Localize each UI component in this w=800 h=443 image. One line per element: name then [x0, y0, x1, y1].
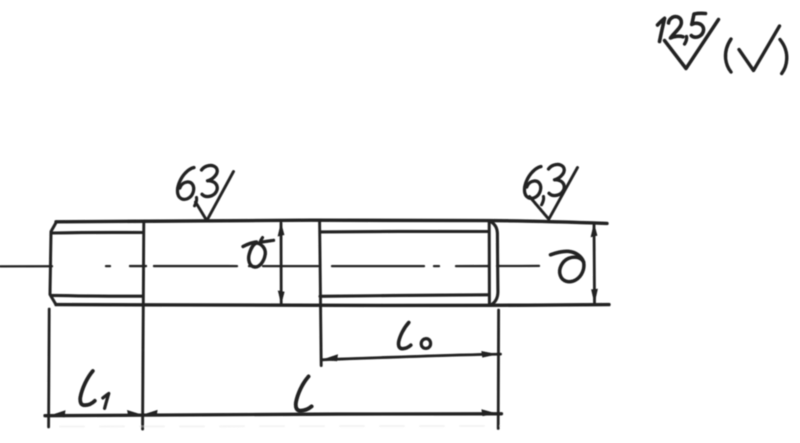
label d rotated ascender — [551, 251, 584, 262]
dimension line l and l1 — [45, 414, 502, 416]
d1 arrow down — [278, 291, 285, 305]
general roughness 12,5: comma — [685, 37, 687, 45]
arrow l0 right — [481, 351, 498, 358]
parenthesis right — [780, 40, 787, 74]
extension line below left end — [47, 309, 50, 427]
label l1 script letter — [80, 371, 95, 405]
arrow l1 right — [127, 410, 142, 417]
faint scan streak at bottom — [60, 425, 500, 428]
roughness mark 6,3 on right thread: comma — [542, 197, 544, 205]
dimension line l0 — [322, 354, 501, 360]
roughness mark 6,3 on shank: digit 3 — [202, 165, 218, 196]
label d1 rotated ascender — [243, 242, 257, 247]
arrow l right — [481, 409, 498, 416]
arrow d top — [591, 223, 598, 238]
roughness tick on right thread — [530, 168, 578, 220]
right thread minor line top — [320, 230, 488, 234]
general roughness tick — [665, 20, 719, 69]
label l0 script letter — [399, 323, 411, 349]
thread runout line at left section with extension line for l — [143, 222, 144, 430]
roughness tick on shank — [196, 172, 234, 221]
label l0 subscript o — [421, 339, 430, 349]
arrow l left — [142, 410, 157, 417]
label d1 rotated bowl — [249, 243, 266, 267]
left end chamfer — [50, 222, 57, 305]
roughness mark 6,3 on shank: digit 6 — [177, 168, 194, 200]
dimension line d — [593, 224, 596, 303]
label l1 subscript 1 — [103, 393, 109, 408]
arrow d bottom — [591, 289, 598, 304]
arrow l0 left — [322, 354, 338, 361]
label d rotated bowl — [560, 257, 584, 282]
roughness mark 6,3 on right thread: digit 3 — [549, 164, 565, 195]
arrow l1 left — [49, 410, 65, 417]
stud body bottom outline with extension line for d — [56, 303, 609, 307]
general roughness 12,5: digit 5 — [691, 13, 705, 37]
right end chamfer — [490, 221, 498, 305]
stud body top outline with extension line for d — [56, 220, 607, 223]
extension line below right end — [497, 310, 500, 429]
thread start line with extension line for l0 — [320, 221, 322, 366]
d1 dimension line — [280, 223, 283, 304]
general roughness 12,5: digit 1 — [658, 18, 665, 41]
label d1 subscript 1 — [260, 238, 274, 243]
left thread minor line top — [53, 231, 144, 235]
d1 arrow up — [278, 222, 285, 237]
roughness mark 6,3 on right thread: digit 6 — [524, 167, 541, 199]
parenthesis left — [725, 39, 731, 72]
general roughness 12,5: digit 2 — [669, 17, 684, 38]
left thread minor line bottom — [52, 294, 143, 298]
roughness mark 6,3 on shank: comma — [195, 198, 197, 206]
right thread minor line bottom — [320, 295, 488, 297]
roughness tick in parentheses — [739, 26, 780, 71]
right end face line — [488, 221, 491, 305]
label l script letter — [296, 377, 312, 411]
center axis dash-dot line — [0, 265, 540, 268]
